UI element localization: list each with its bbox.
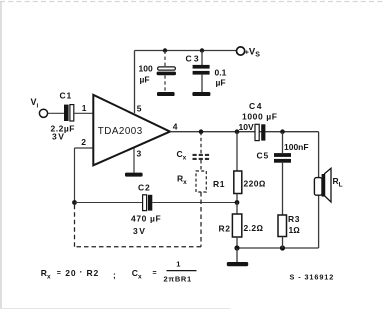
label 470uF 3V [131, 214, 161, 237]
label R3 [288, 214, 300, 224]
svg-text:0.1: 0.1 [215, 68, 227, 78]
svg-text:TDA2003: TDA2003 [98, 126, 143, 137]
svg-text:C4: C4 [249, 101, 263, 111]
junction 100uF on rail [163, 48, 167, 52]
label 100nF [284, 142, 309, 152]
speaker RL [314, 168, 331, 202]
capacitor C4 [255, 124, 265, 140]
svg-text:C3: C3 [186, 54, 201, 64]
svg-text:3: 3 [137, 149, 142, 159]
svg-text:10V: 10V [239, 122, 254, 132]
junction R1/R2/C2 [235, 200, 240, 205]
resistor R3 [278, 215, 287, 248]
capacitor 100uF [157, 51, 176, 92]
ground under C3 [192, 92, 210, 96]
svg-text:=: = [57, 270, 61, 277]
svg-text:Cx: Cx [132, 268, 142, 280]
svg-text:µF: µF [140, 75, 150, 85]
svg-text:R2: R2 [219, 224, 231, 234]
wire Vi to C1 [48, 112, 64, 114]
svg-text:Rx: Rx [41, 268, 51, 280]
wire C2 to R1/R2 node [152, 202, 237, 204]
svg-text:C5: C5 [257, 151, 269, 161]
svg-text:3V: 3V [52, 132, 65, 142]
svg-text:1Ω: 1Ω [289, 225, 301, 235]
label Cx [177, 149, 187, 161]
resistor R2 [232, 203, 241, 249]
svg-text:2.2Ω: 2.2Ω [244, 223, 264, 233]
label R2 [219, 224, 231, 234]
svg-text:=: = [153, 270, 157, 277]
junction R3 on bottom rail [280, 245, 285, 250]
label 100uF [139, 64, 153, 85]
label R1 [213, 179, 225, 189]
ground under 100uF [157, 92, 175, 96]
bottom rail wire [237, 247, 319, 249]
junction ground on bottom rail [234, 245, 239, 250]
pin 3 wire [133, 148, 135, 173]
pin 3 label [137, 149, 142, 159]
pin 5 label [137, 103, 142, 113]
label C4 [249, 101, 263, 111]
supply rail wire [135, 51, 237, 114]
page edge left [0, 1, 2, 309]
capacitor C5 [274, 132, 291, 215]
svg-text:C1: C1 [60, 91, 72, 101]
junction C5 on output [280, 129, 285, 134]
svg-text:R1: R1 [213, 179, 225, 189]
wire junction to C2 [75, 202, 143, 204]
terminal Vi [39, 109, 47, 117]
label 0.1uF [215, 68, 227, 88]
label 2.2uF 3V [51, 124, 75, 142]
label Vi [31, 97, 39, 110]
junction R1 on output [235, 129, 240, 134]
pin 4 label [173, 122, 178, 132]
pin 4 output wire [170, 131, 319, 133]
pin 2 label [81, 137, 86, 147]
capacitor Cx (dashed) [193, 132, 210, 171]
label C1 [60, 91, 72, 101]
svg-text:R2: R2 [87, 268, 99, 278]
resistor R1 [234, 132, 242, 203]
label RL [333, 176, 343, 189]
resistor Rx (dashed) [196, 171, 206, 192]
svg-text:1: 1 [82, 103, 87, 113]
pin 2 wire [75, 148, 93, 203]
svg-text:3V: 3V [133, 226, 146, 236]
wire C1 to pin 1 [74, 112, 93, 114]
svg-text:R3: R3 [288, 214, 300, 224]
svg-text:Vi: Vi [31, 97, 39, 110]
svg-text:100nF: 100nF [284, 142, 309, 152]
capacitor C3 [193, 51, 210, 93]
capacitor C1 [64, 105, 74, 121]
label C2 [138, 183, 150, 193]
speaker wire [318, 132, 320, 248]
pin 1 label [82, 103, 87, 113]
svg-text:20: 20 [65, 268, 76, 278]
junction pin2/C2/feedback [72, 200, 77, 205]
capacitor C2 [143, 195, 153, 211]
svg-text:Cx: Cx [177, 149, 187, 161]
label Rx [177, 174, 187, 186]
svg-text:220Ω: 220Ω [244, 179, 266, 189]
svg-text:·: · [80, 267, 83, 277]
formula Cx = 1/(2piBR1) [132, 259, 197, 283]
svg-text:µF: µF [216, 78, 226, 88]
label 220 ohm [244, 179, 266, 189]
svg-text:1: 1 [176, 259, 180, 268]
svg-text:470 µF: 470 µF [131, 214, 161, 224]
ground bottom [227, 248, 248, 266]
label 1 ohm [289, 225, 301, 235]
label 1000uF 10V [239, 112, 278, 133]
page edge top [0, 1, 383, 3]
formula Rx = 20*R2 [41, 267, 116, 280]
junction C3 on rail [200, 48, 204, 52]
label C3 [186, 54, 201, 64]
svg-text:+VS: +VS [245, 47, 260, 59]
svg-text:Rx: Rx [177, 174, 187, 186]
svg-text:RL: RL [333, 176, 343, 189]
svg-text:2: 2 [81, 137, 86, 147]
drawing number S-316912 [290, 273, 335, 282]
terminal +Vs [237, 47, 245, 55]
label +Vs [245, 47, 260, 59]
svg-text:2πBR1: 2πBR1 [164, 275, 192, 284]
dashed feedback wire [75, 192, 202, 247]
junction Cx on output [199, 129, 204, 134]
svg-text:100: 100 [139, 64, 153, 74]
svg-text:;: ; [113, 270, 116, 280]
svg-text:5: 5 [137, 103, 142, 113]
label TDA2003 [98, 126, 143, 137]
ground pin 3 [125, 173, 143, 177]
svg-text:S - 316912: S - 316912 [290, 273, 335, 282]
svg-text:1000 µF: 1000 µF [242, 112, 278, 122]
svg-text:C2: C2 [138, 183, 150, 193]
label 2.2 ohm [244, 223, 264, 233]
op-amp U1 TDA2003 [93, 95, 170, 166]
page edge bottom [1, 308, 230, 310]
label C5 [257, 151, 269, 161]
svg-text:4: 4 [173, 122, 178, 132]
